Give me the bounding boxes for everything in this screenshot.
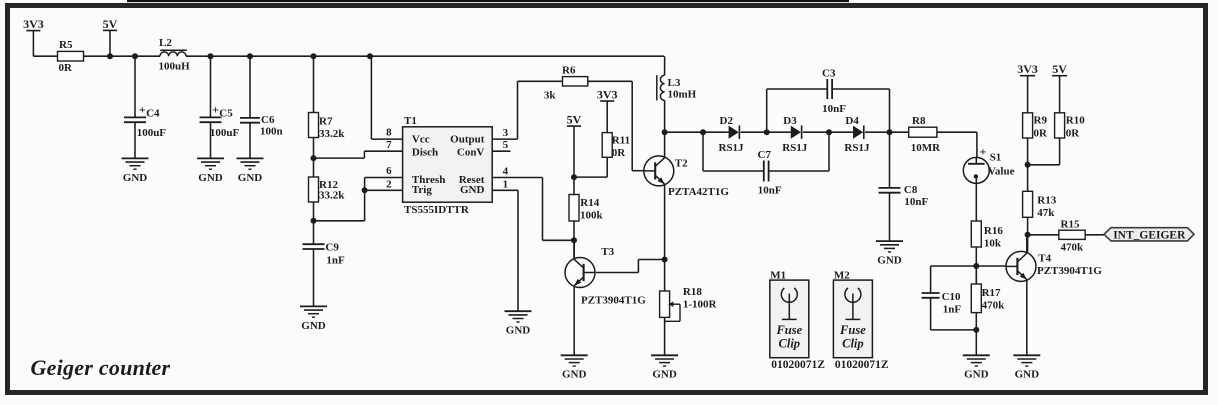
svg-text:10nF: 10nF xyxy=(904,196,928,208)
svg-text:10k: 10k xyxy=(984,237,1002,249)
svg-text:10nF: 10nF xyxy=(758,184,782,196)
svg-text:RS1J: RS1J xyxy=(844,142,870,154)
svg-text:T1: T1 xyxy=(404,115,417,127)
svg-text:C8: C8 xyxy=(904,184,918,196)
svg-text:T2: T2 xyxy=(675,157,688,169)
svg-text:+: + xyxy=(980,145,987,159)
svg-text:GND: GND xyxy=(964,369,989,381)
svg-text:01020071Z: 01020071Z xyxy=(771,359,825,371)
svg-text:L2: L2 xyxy=(159,37,172,49)
svg-text:4: 4 xyxy=(503,166,509,178)
svg-text:PZT3904T1G: PZT3904T1G xyxy=(581,294,646,306)
svg-text:3V3: 3V3 xyxy=(23,17,44,31)
svg-text:R16: R16 xyxy=(984,225,1003,237)
svg-text:D4: D4 xyxy=(845,115,859,127)
svg-text:3: 3 xyxy=(503,127,509,139)
svg-text:33.2k: 33.2k xyxy=(319,128,345,140)
svg-text:R18: R18 xyxy=(683,286,702,298)
svg-text:C9: C9 xyxy=(325,242,339,254)
svg-text:1-100R: 1-100R xyxy=(683,298,718,310)
svg-text:Clip: Clip xyxy=(842,337,864,351)
svg-text:R10: R10 xyxy=(1066,115,1085,127)
svg-text:5V: 5V xyxy=(567,113,582,127)
svg-text:R6: R6 xyxy=(562,64,576,76)
svg-text:GND: GND xyxy=(238,172,263,184)
svg-text:GND: GND xyxy=(562,369,587,381)
svg-text:33.2k: 33.2k xyxy=(319,190,345,202)
svg-text:Clip: Clip xyxy=(779,337,801,351)
svg-text:100k: 100k xyxy=(580,209,604,221)
svg-text:5V: 5V xyxy=(1052,62,1067,76)
svg-text:ConV: ConV xyxy=(457,147,485,159)
svg-text:+: + xyxy=(139,103,146,117)
svg-text:R8: R8 xyxy=(912,115,926,127)
svg-text:5: 5 xyxy=(503,139,509,151)
svg-text:GND: GND xyxy=(198,172,223,184)
svg-text:R15: R15 xyxy=(1061,218,1080,230)
svg-text:L3: L3 xyxy=(668,77,681,89)
svg-text:10MR: 10MR xyxy=(911,142,941,154)
svg-text:D2: D2 xyxy=(720,115,734,127)
svg-text:0R: 0R xyxy=(59,62,74,74)
svg-text:100uF: 100uF xyxy=(210,127,240,139)
svg-text:1nF: 1nF xyxy=(326,255,345,267)
svg-text:T3: T3 xyxy=(601,246,614,258)
svg-text:2: 2 xyxy=(386,178,392,190)
svg-text:Fuse: Fuse xyxy=(839,323,866,337)
svg-text:10mH: 10mH xyxy=(668,88,697,100)
svg-text:RS1J: RS1J xyxy=(782,142,808,154)
svg-text:PZTA42T1G: PZTA42T1G xyxy=(668,186,729,198)
svg-text:Disch: Disch xyxy=(412,147,438,159)
svg-text:8: 8 xyxy=(386,127,392,139)
svg-text:R9: R9 xyxy=(1034,115,1048,127)
svg-text:470k: 470k xyxy=(982,299,1006,311)
svg-text:Trig: Trig xyxy=(412,184,432,196)
svg-text:GND: GND xyxy=(460,184,485,196)
svg-text:GND: GND xyxy=(506,325,531,337)
svg-text:GND: GND xyxy=(877,255,902,267)
svg-text:1nF: 1nF xyxy=(943,303,962,315)
svg-text:D3: D3 xyxy=(783,115,797,127)
svg-text:01020071Z: 01020071Z xyxy=(835,359,889,371)
svg-text:INT_GEIGER: INT_GEIGER xyxy=(1113,230,1186,242)
svg-text:0R: 0R xyxy=(612,147,627,159)
svg-text:100uF: 100uF xyxy=(137,127,167,139)
svg-text:100uH: 100uH xyxy=(159,61,191,73)
svg-text:TS555IDTTR: TS555IDTTR xyxy=(404,204,470,216)
svg-text:S1: S1 xyxy=(990,151,1002,163)
svg-text:C4: C4 xyxy=(146,107,160,119)
svg-text:C10: C10 xyxy=(942,291,961,303)
svg-text:R11: R11 xyxy=(612,134,630,146)
svg-text:0R: 0R xyxy=(1066,127,1081,139)
svg-text:Vcc: Vcc xyxy=(412,134,430,146)
svg-text:C3: C3 xyxy=(822,68,836,80)
svg-text:R14: R14 xyxy=(580,197,599,209)
svg-text:Value: Value xyxy=(988,165,1015,177)
svg-text:GND: GND xyxy=(1015,369,1040,381)
svg-text:7: 7 xyxy=(386,139,392,151)
svg-text:T4: T4 xyxy=(1038,253,1051,265)
svg-text:470k: 470k xyxy=(1061,241,1085,253)
svg-text:C7: C7 xyxy=(758,149,772,161)
svg-text:Geiger counter: Geiger counter xyxy=(31,355,171,380)
svg-text:R17: R17 xyxy=(982,287,1001,299)
svg-text:R13: R13 xyxy=(1037,194,1056,206)
svg-text:5V: 5V xyxy=(103,17,118,31)
svg-text:10nF: 10nF xyxy=(822,103,846,115)
svg-text:1: 1 xyxy=(503,179,509,191)
svg-text:GND: GND xyxy=(123,172,148,184)
svg-text:Output: Output xyxy=(450,134,485,146)
svg-text:6: 6 xyxy=(386,165,392,177)
svg-text:PZT3904T1G: PZT3904T1G xyxy=(1037,265,1102,277)
svg-text:GND: GND xyxy=(301,320,326,332)
svg-text:C5: C5 xyxy=(219,107,233,119)
svg-text:3k: 3k xyxy=(544,89,557,101)
svg-text:3V3: 3V3 xyxy=(1017,62,1038,76)
svg-text:M2: M2 xyxy=(834,269,850,281)
svg-text:R7: R7 xyxy=(319,115,333,127)
svg-text:0R: 0R xyxy=(1034,127,1049,139)
svg-text:R5: R5 xyxy=(59,39,73,51)
svg-text:RS1J: RS1J xyxy=(719,142,745,154)
svg-text:3V3: 3V3 xyxy=(597,87,618,101)
svg-text:+: + xyxy=(212,103,219,117)
svg-text:C6: C6 xyxy=(261,114,275,126)
svg-text:GND: GND xyxy=(652,369,677,381)
svg-text:M1: M1 xyxy=(770,269,786,281)
svg-text:47k: 47k xyxy=(1037,207,1055,219)
svg-text:Fuse: Fuse xyxy=(775,323,802,337)
svg-text:100n: 100n xyxy=(260,126,283,138)
